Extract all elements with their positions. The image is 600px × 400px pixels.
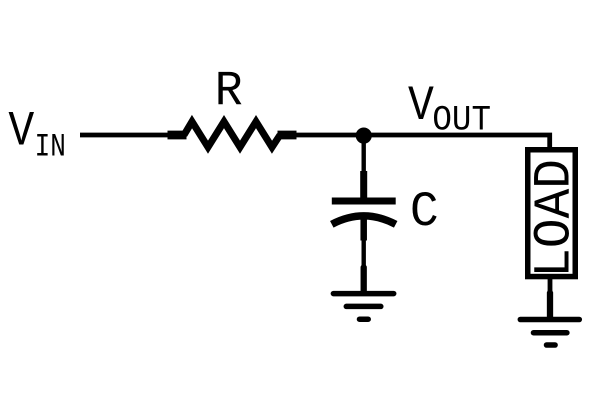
- wire resistor to LOAD (through node): [296, 135, 550, 148]
- capacitor C: [332, 171, 396, 241]
- svg-text:IN: IN: [35, 128, 66, 166]
- wire LOAD to ground: [548, 279, 553, 294]
- svg-text:V: V: [8, 104, 34, 159]
- wire capacitor to ground: [362, 240, 366, 268]
- load box LOAD: [528, 150, 576, 277]
- svg-text:LOAD: LOAD: [527, 159, 585, 278]
- svg-text:C: C: [410, 185, 439, 241]
- svg-text:V: V: [408, 78, 434, 133]
- node VOUT junction dot: [356, 128, 372, 144]
- wire VIN to resistor R: [80, 133, 169, 138]
- resistor R: [168, 122, 297, 148]
- ground under LOAD: [520, 293, 579, 345]
- node VOUT label: [408, 78, 491, 140]
- svg-text:OUT: OUT: [432, 102, 491, 141]
- ground under capacitor: [333, 268, 393, 320]
- wire node to capacitor C: [362, 135, 366, 172]
- node VIN label: [8, 104, 65, 165]
- svg-text:R: R: [215, 65, 243, 120]
